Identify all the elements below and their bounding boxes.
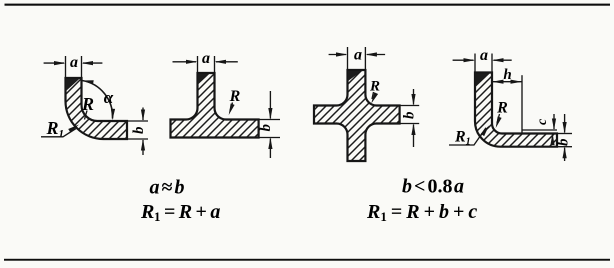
svg-text:α: α bbox=[104, 88, 114, 107]
svg-text:h: h bbox=[503, 67, 511, 83]
svg-text:a: a bbox=[480, 47, 488, 64]
svg-text:a≈b: a≈b bbox=[150, 177, 185, 199]
svg-text:b: b bbox=[402, 111, 418, 119]
svg-text:R1 = R + a: R1 = R + a bbox=[140, 201, 220, 224]
svg-text:b<0.8a: b<0.8a bbox=[402, 176, 464, 198]
svg-text:R: R bbox=[369, 79, 380, 95]
svg-text:c: c bbox=[535, 118, 550, 125]
svg-text:R: R bbox=[496, 100, 508, 117]
svg-text:a: a bbox=[202, 50, 210, 67]
svg-text:R: R bbox=[229, 88, 241, 105]
svg-text:b: b bbox=[556, 138, 572, 146]
svg-text:a: a bbox=[70, 54, 78, 71]
svg-text:b: b bbox=[258, 124, 274, 132]
svg-text:a: a bbox=[354, 47, 362, 64]
svg-text:b: b bbox=[131, 126, 147, 134]
svg-text:R1 = R + b + c: R1 = R + b + c bbox=[366, 201, 477, 224]
